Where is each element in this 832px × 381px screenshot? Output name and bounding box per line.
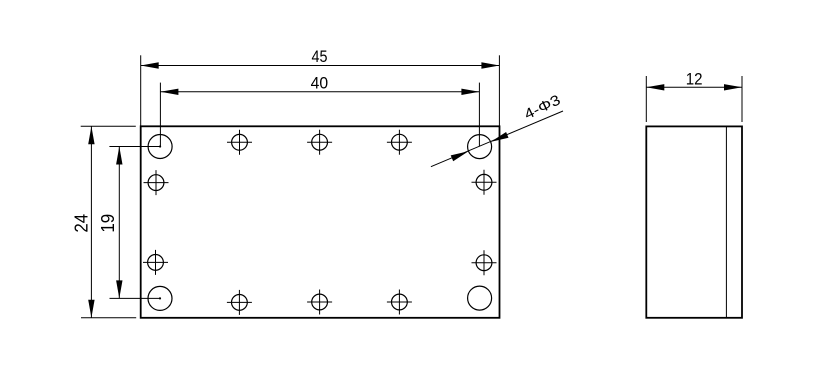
svg-text:4-Φ3: 4-Φ3: [522, 92, 563, 123]
svg-text:12: 12: [686, 69, 703, 88]
svg-text:24: 24: [72, 214, 92, 233]
svg-text:19: 19: [98, 214, 118, 233]
svg-text:45: 45: [312, 47, 328, 66]
svg-text:40: 40: [311, 73, 329, 92]
